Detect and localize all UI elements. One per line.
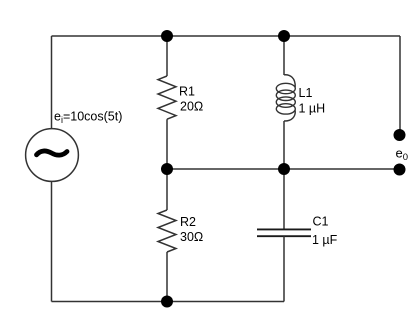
wire right branch from top bus to output terminal xyxy=(399,36,401,132)
capacitor C1 top plate xyxy=(257,228,311,230)
junction node middle left xyxy=(161,163,173,175)
capacitor C1 bottom plate xyxy=(257,235,311,237)
wire L1 top lead xyxy=(283,36,285,75)
junction node bottom xyxy=(161,296,173,308)
wire C1 top lead xyxy=(283,169,285,229)
wire bottom bus xyxy=(52,301,285,303)
svg-text:R230Ω: R230Ω xyxy=(180,215,203,244)
wire L1 bottom lead xyxy=(283,121,285,169)
output terminal upper xyxy=(394,129,406,141)
junction node middle right xyxy=(278,163,290,175)
resistor R2 xyxy=(158,210,176,252)
wire R2 bottom lead xyxy=(166,252,168,302)
svg-text:C11 µF: C11 µF xyxy=(312,215,338,248)
wire R2 top lead xyxy=(166,169,168,210)
voltage source U1 e_i xyxy=(26,129,79,182)
wire R1 bottom lead xyxy=(166,119,168,169)
wire middle bus to output xyxy=(167,168,400,170)
resistor R1 xyxy=(158,76,176,119)
svg-text:L11 µH: L11 µH xyxy=(299,86,326,115)
svg-text:e0: e0 xyxy=(396,146,409,164)
junction node top left xyxy=(161,30,173,42)
junction node top right xyxy=(278,30,290,42)
wire R1 top lead xyxy=(166,36,168,76)
sine symbol of source xyxy=(37,151,68,155)
wire top bus from source to right branch xyxy=(52,35,401,37)
svg-text:R120Ω: R120Ω xyxy=(179,85,203,114)
wire left branch lower (source bottom lead) xyxy=(51,181,53,301)
inductor L1 xyxy=(276,75,295,121)
wire C1 bottom lead xyxy=(283,236,285,301)
svg-text:ei=10cos(5t): ei=10cos(5t) xyxy=(54,110,122,126)
output terminal lower xyxy=(394,164,406,176)
wire left branch upper (source top lead) xyxy=(51,36,53,129)
